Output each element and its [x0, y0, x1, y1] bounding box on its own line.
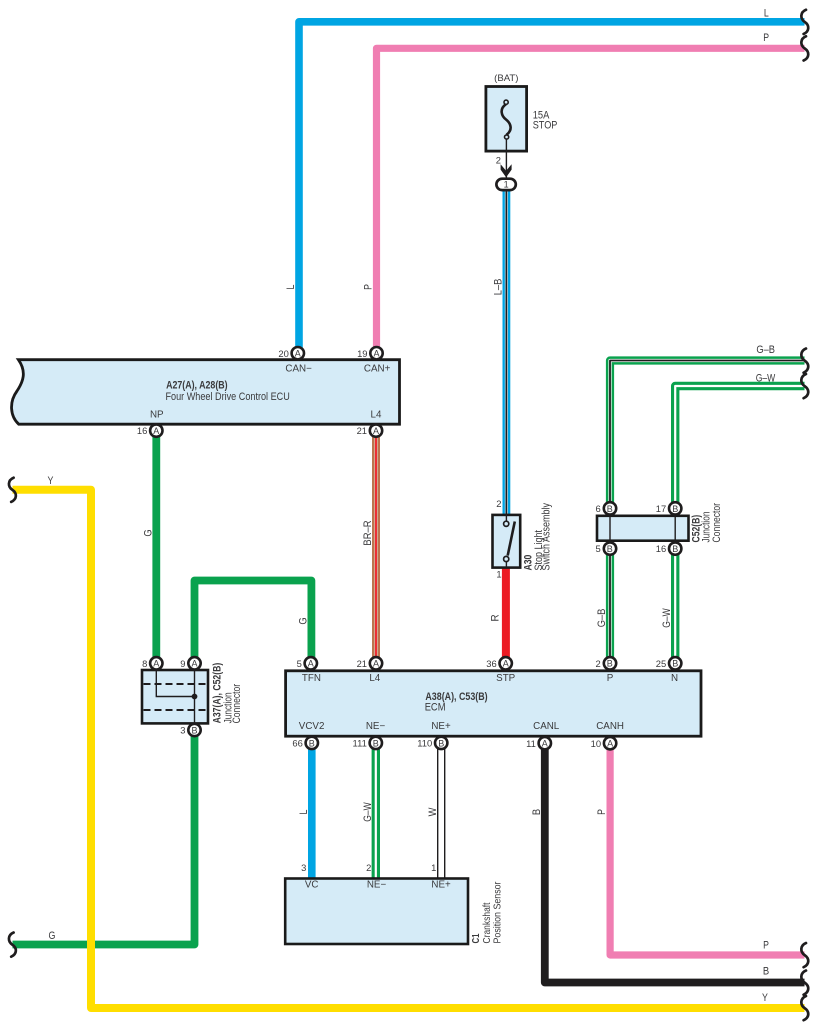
svg-text:B: B	[672, 544, 678, 554]
svg-text:2: 2	[496, 155, 501, 166]
svg-text:B: B	[672, 659, 678, 669]
svg-text:L4: L4	[371, 409, 382, 420]
svg-text:A: A	[191, 659, 197, 669]
svg-text:P: P	[363, 284, 375, 290]
svg-text:B: B	[672, 504, 678, 514]
svg-text:A27(A), A28(B): A27(A), A28(B)	[166, 380, 228, 392]
svg-text:5: 5	[595, 543, 600, 554]
svg-text:2: 2	[366, 862, 371, 873]
svg-text:Connector: Connector	[711, 503, 723, 543]
svg-text:G: G	[49, 930, 56, 942]
svg-text:N: N	[671, 673, 678, 684]
svg-text:8: 8	[142, 658, 147, 669]
svg-text:1: 1	[431, 862, 436, 873]
svg-text:Connector: Connector	[231, 684, 243, 724]
svg-text:G–B: G–B	[596, 609, 608, 628]
svg-text:P: P	[596, 809, 608, 815]
svg-text:10: 10	[591, 738, 601, 749]
svg-text:9: 9	[180, 658, 185, 669]
svg-text:111: 111	[353, 738, 367, 749]
svg-text:VC: VC	[305, 880, 319, 891]
svg-text:CANH: CANH	[596, 721, 624, 732]
svg-text:STOP: STOP	[533, 120, 558, 132]
svg-text:A: A	[373, 659, 379, 669]
svg-text:2: 2	[595, 658, 600, 669]
svg-text:NP: NP	[150, 409, 164, 420]
svg-text:3: 3	[301, 862, 306, 873]
svg-text:NE+: NE+	[431, 721, 451, 732]
svg-text:VCV2: VCV2	[299, 721, 325, 732]
svg-text:3: 3	[180, 725, 185, 736]
svg-text:L: L	[298, 810, 310, 815]
svg-text:25: 25	[656, 658, 666, 669]
svg-text:ECM: ECM	[425, 702, 446, 714]
svg-text:5: 5	[297, 658, 302, 669]
svg-text:P: P	[763, 940, 769, 952]
svg-text:L4: L4	[369, 673, 380, 684]
svg-text:A: A	[373, 426, 379, 436]
svg-text:110: 110	[417, 738, 432, 749]
svg-text:19: 19	[357, 348, 367, 359]
svg-text:B: B	[531, 809, 543, 815]
svg-text:CAN−: CAN−	[285, 363, 312, 374]
svg-text:A: A	[153, 659, 159, 669]
svg-text:NE−: NE−	[366, 721, 386, 732]
svg-text:G–W: G–W	[362, 802, 374, 822]
svg-text:66: 66	[292, 738, 302, 749]
svg-text:A: A	[153, 426, 159, 436]
svg-text:A: A	[607, 739, 613, 749]
svg-text:G–B: G–B	[756, 344, 775, 356]
svg-text:CAN+: CAN+	[364, 363, 391, 374]
svg-text:Y: Y	[48, 475, 54, 487]
svg-text:CANL: CANL	[533, 721, 560, 732]
svg-text:Position Sensor: Position Sensor	[493, 881, 504, 943]
svg-text:(BAT): (BAT)	[494, 73, 518, 84]
svg-text:B: B	[763, 966, 769, 978]
svg-text:1: 1	[496, 569, 501, 580]
svg-text:G–W: G–W	[661, 608, 673, 628]
svg-text:16: 16	[656, 543, 666, 554]
svg-text:B: B	[607, 504, 613, 514]
svg-text:1: 1	[504, 180, 509, 190]
svg-text:Four Wheel Drive Control ECU: Four Wheel Drive Control ECU	[166, 391, 290, 403]
svg-text:11: 11	[526, 738, 536, 749]
svg-text:20: 20	[278, 348, 288, 359]
svg-text:B: B	[438, 738, 444, 748]
svg-text:P: P	[607, 673, 614, 684]
svg-text:B: B	[191, 725, 197, 735]
svg-text:17: 17	[656, 503, 666, 514]
svg-text:L: L	[285, 285, 297, 290]
svg-text:6: 6	[595, 503, 600, 514]
svg-text:A: A	[295, 349, 301, 359]
svg-text:A: A	[503, 659, 509, 669]
svg-text:36: 36	[486, 658, 496, 669]
svg-text:Y: Y	[762, 992, 768, 1004]
svg-text:B: B	[309, 738, 315, 748]
svg-text:B: B	[607, 659, 613, 669]
svg-text:Crankshaft: Crankshaft	[482, 902, 493, 943]
svg-text:L–B: L–B	[492, 279, 504, 296]
svg-text:A: A	[542, 739, 548, 749]
svg-text:16: 16	[137, 425, 147, 436]
svg-text:C1: C1	[471, 933, 482, 943]
svg-text:STP: STP	[496, 673, 516, 684]
svg-text:Switch Assembly: Switch Assembly	[541, 503, 553, 571]
svg-text:P: P	[763, 32, 769, 44]
svg-text:2: 2	[496, 498, 501, 509]
svg-text:G–W: G–W	[756, 372, 776, 384]
svg-text:A: A	[308, 659, 314, 669]
svg-text:G: G	[142, 529, 154, 536]
svg-text:NE−: NE−	[367, 880, 387, 891]
svg-text:TFN: TFN	[302, 673, 321, 684]
svg-text:G: G	[297, 617, 309, 624]
svg-text:L: L	[764, 8, 769, 20]
svg-text:B: B	[607, 544, 613, 554]
svg-text:21: 21	[357, 425, 367, 436]
svg-text:A: A	[373, 349, 379, 359]
svg-text:NE+: NE+	[431, 880, 451, 891]
svg-text:21: 21	[357, 658, 367, 669]
svg-text:W: W	[427, 807, 439, 816]
svg-text:BR–R: BR–R	[362, 520, 374, 545]
svg-text:B: B	[373, 738, 379, 748]
svg-text:R: R	[490, 614, 502, 621]
